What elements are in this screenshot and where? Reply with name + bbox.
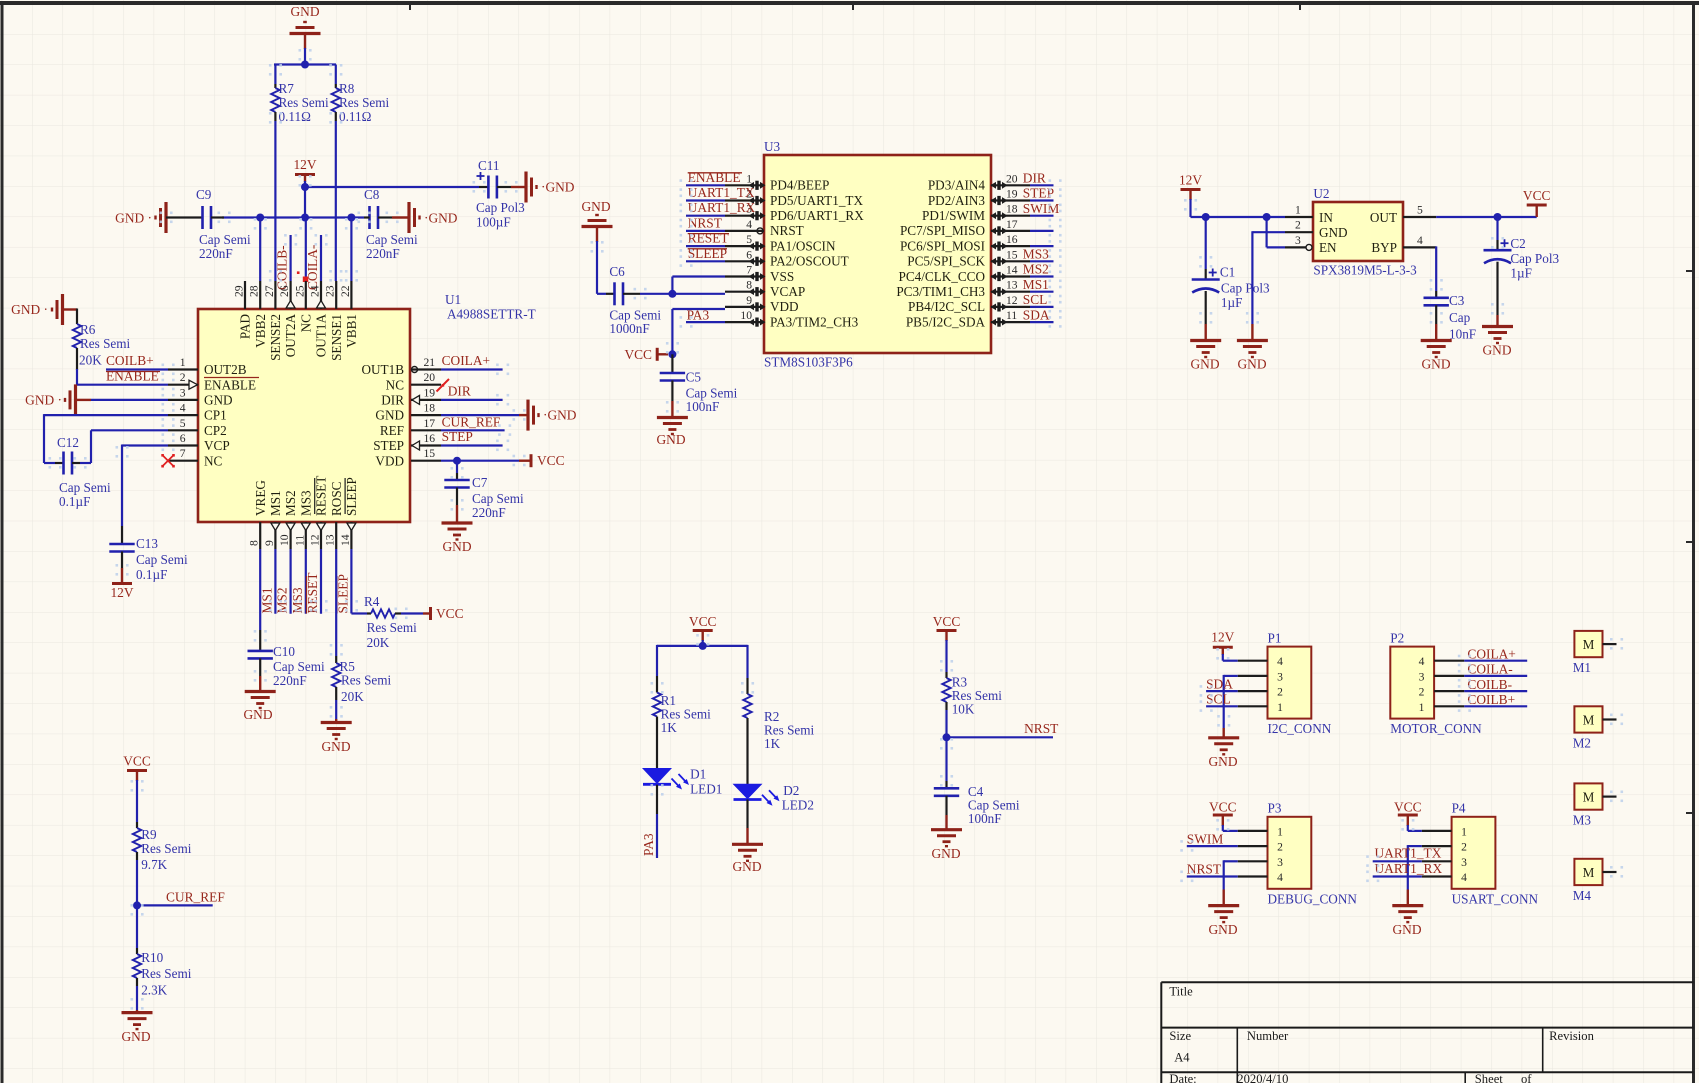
- svg-text:220nF: 220nF: [199, 246, 233, 261]
- svg-text:GND: GND: [1482, 343, 1511, 358]
- node 12V junction: [301, 183, 309, 191]
- svg-text:C12: C12: [57, 435, 79, 450]
- svg-text:1µF: 1µF: [1510, 266, 1532, 281]
- node LED rail junction: [699, 642, 707, 650]
- svg-text:M2: M2: [1573, 735, 1591, 750]
- op-amp U1 A4988SETTR-T body: [198, 309, 410, 522]
- svg-text:GND ·: GND ·: [115, 211, 152, 226]
- svg-text:2: 2: [1277, 841, 1283, 854]
- svg-text:COILB-: COILB-: [1467, 677, 1512, 692]
- net MS1: [274, 549, 276, 614]
- svg-text:Res Semi: Res Semi: [141, 966, 192, 981]
- ground GND at C1: [1190, 339, 1221, 342]
- svg-text:BYP: BYP: [1371, 240, 1397, 255]
- svg-text:18: 18: [1006, 203, 1018, 216]
- svg-text:17: 17: [1006, 218, 1018, 231]
- node C2 junction: [1494, 213, 1502, 221]
- ground GND at C5: [657, 416, 688, 419]
- wire: [1030, 245, 1054, 247]
- U1 bottom pin stubs: [259, 522, 261, 549]
- svg-text:1: 1: [1277, 825, 1283, 838]
- resistor R10 2.3K: [136, 905, 138, 948]
- svg-text:COILA-: COILA-: [305, 245, 320, 290]
- svg-text:NRST: NRST: [1187, 862, 1221, 877]
- ground GND at D2: [732, 843, 763, 846]
- svg-text:M1: M1: [1573, 660, 1591, 675]
- svg-text:Cap Semi: Cap Semi: [136, 552, 188, 567]
- svg-text:VCC: VCC: [1209, 800, 1237, 815]
- wire / net PA3: [656, 785, 658, 814]
- svg-text:4: 4: [1277, 655, 1283, 668]
- svg-text:2: 2: [1419, 686, 1425, 699]
- ground GND at C10: [245, 690, 276, 693]
- wire VSS: [672, 275, 725, 277]
- svg-text:COILB-: COILB-: [275, 245, 290, 290]
- title block: [1161, 981, 1693, 983]
- ground GND at P3: [1208, 904, 1239, 907]
- wire: [76, 369, 78, 385]
- svg-text:STM8S103F3P6: STM8S103F3P6: [764, 355, 853, 370]
- connector P1 I2C_CONN body: [1268, 647, 1312, 719]
- no-connect X pin 7: [163, 456, 173, 466]
- svg-text:MS1: MS1: [268, 490, 283, 516]
- svg-text:9: 9: [746, 294, 752, 307]
- P4 pin 1: [1422, 830, 1452, 832]
- svg-text:D2: D2: [783, 783, 799, 798]
- svg-text:SENSE2: SENSE2: [268, 314, 283, 361]
- wire: [274, 63, 336, 65]
- svg-text:100µF: 100µF: [476, 215, 511, 230]
- P2 pin 4 / net COILA+: [1434, 660, 1464, 662]
- svg-text:Cap Semi: Cap Semi: [59, 480, 111, 495]
- svg-text:C1: C1: [1220, 265, 1235, 280]
- svg-text:NC: NC: [204, 453, 223, 468]
- U3 left pin stubs 1-10: [725, 184, 764, 186]
- node VBB rail junctions: [301, 214, 309, 222]
- U2 pin 5 OUT: [1403, 216, 1436, 218]
- svg-text:Res Semi: Res Semi: [341, 673, 392, 688]
- wire 12V rail: [1191, 216, 1286, 218]
- capacitor C11 100uF: [479, 186, 488, 188]
- connector M3 mounting hole: [1574, 783, 1602, 809]
- svg-text:NRST: NRST: [1024, 721, 1058, 736]
- svg-text:12V: 12V: [293, 157, 316, 172]
- no-connect X pin 20: [437, 379, 450, 392]
- svg-text:MS2: MS2: [283, 490, 298, 516]
- svg-text:Res Semi: Res Semi: [279, 95, 330, 110]
- capacitor C10 220nF: [248, 650, 273, 653]
- svg-text:COILA+: COILA+: [442, 353, 490, 368]
- svg-text:MS1: MS1: [259, 587, 274, 613]
- svg-text:1000nF: 1000nF: [609, 321, 649, 336]
- svg-text:6: 6: [180, 432, 186, 445]
- svg-text:Res Semi: Res Semi: [80, 336, 131, 351]
- svg-text:PC5/SPI_SCK: PC5/SPI_SCK: [907, 254, 985, 269]
- svg-text:RESET: RESET: [688, 231, 729, 246]
- svg-text:3: 3: [1295, 234, 1301, 247]
- svg-text:3: 3: [1277, 670, 1283, 683]
- no-ERC marker: [303, 277, 309, 283]
- svg-text:MS2: MS2: [1023, 262, 1049, 277]
- svg-text:Size: Size: [1169, 1029, 1191, 1043]
- svg-text:NRST: NRST: [770, 223, 804, 238]
- ground GND right of C11: [524, 172, 527, 203]
- svg-text:PD1/SWIM: PD1/SWIM: [922, 208, 985, 223]
- svg-text:PC6/SPI_MOSI: PC6/SPI_MOSI: [900, 238, 985, 253]
- svg-text:NC: NC: [386, 377, 405, 392]
- wire VREG to C10: [259, 549, 261, 630]
- capacitor C5 100nF: [671, 354, 673, 373]
- svg-text:OUT2A: OUT2A: [283, 314, 298, 358]
- U2 pin 3 EN: [1285, 246, 1306, 248]
- P1 pin 3: [1238, 675, 1268, 677]
- wire: [1030, 275, 1054, 277]
- svg-text:Revision: Revision: [1549, 1029, 1594, 1043]
- svg-text:Cap Pol3: Cap Pol3: [476, 200, 525, 215]
- svg-text:SCL: SCL: [1023, 292, 1048, 307]
- svg-text:VCC: VCC: [123, 754, 151, 769]
- svg-text:2.3K: 2.3K: [141, 983, 167, 998]
- svg-text:Number: Number: [1247, 1029, 1289, 1043]
- svg-text:VCAP: VCAP: [770, 284, 805, 299]
- svg-text:MS1: MS1: [1023, 277, 1049, 292]
- svg-text:C3: C3: [1449, 293, 1465, 308]
- wire VDD to VCC: [441, 460, 519, 462]
- wire: [304, 48, 306, 66]
- svg-text:M: M: [1583, 637, 1595, 652]
- svg-text:10K: 10K: [952, 702, 975, 717]
- resistor R2 1K: [746, 645, 748, 678]
- svg-text:0.11Ω: 0.11Ω: [279, 109, 312, 124]
- svg-text:7: 7: [746, 264, 752, 277]
- resistor R6 20K: [76, 309, 78, 325]
- svg-text:·GND: ·GND: [541, 180, 575, 195]
- wire: [1030, 260, 1054, 262]
- node EN junction: [1263, 213, 1271, 221]
- svg-text:19: 19: [1006, 188, 1018, 201]
- resistor R9 9.7K: [136, 780, 138, 822]
- svg-text:8: 8: [248, 540, 261, 546]
- svg-text:R6: R6: [80, 322, 96, 337]
- svg-text:0.1µF: 0.1µF: [136, 567, 167, 582]
- svg-text:5: 5: [180, 417, 186, 430]
- wire: [350, 218, 352, 282]
- svg-text:C2: C2: [1510, 236, 1525, 251]
- svg-text:26: 26: [278, 285, 291, 297]
- svg-text:COILA-: COILA-: [1467, 662, 1512, 677]
- svg-text:1: 1: [1295, 204, 1301, 217]
- net SLEEP + resistor R4 20K to VCC: [350, 549, 352, 614]
- svg-text:18: 18: [424, 402, 436, 415]
- svg-text:PB4/I2C_SCL: PB4/I2C_SCL: [908, 299, 985, 314]
- svg-text:CP2: CP2: [204, 423, 227, 438]
- node CUR_REF junction: [133, 901, 141, 909]
- svg-text:20K: 20K: [367, 635, 390, 650]
- pin 19 triangle: [412, 395, 420, 404]
- P4 pin 3: [1422, 860, 1452, 862]
- svg-text:12: 12: [309, 534, 322, 546]
- net MS3: [305, 549, 307, 614]
- svg-text:VDD: VDD: [375, 453, 404, 468]
- U1 top pin stubs: [244, 281, 246, 309]
- svg-text:GND: GND: [581, 199, 610, 214]
- svg-text:PA3: PA3: [687, 307, 710, 322]
- svg-text:P1: P1: [1268, 631, 1282, 646]
- capacitor C9 220nF: [166, 216, 203, 218]
- wire pin3 to GND: [1224, 675, 1238, 677]
- svg-text:M: M: [1583, 865, 1595, 880]
- svg-text:24: 24: [309, 285, 322, 297]
- P4 pin 2: [1422, 845, 1452, 847]
- svg-text:100nF: 100nF: [686, 399, 720, 414]
- svg-text:Sheet: Sheet: [1475, 1072, 1503, 1083]
- svg-text:14: 14: [339, 534, 352, 546]
- U2 pin 2 GND: [1285, 231, 1313, 233]
- svg-text:6: 6: [746, 248, 752, 261]
- node R7/R8 top junction: [301, 61, 309, 69]
- capacitor C13 0.1uF on VCP: [122, 444, 168, 446]
- wire pin3 to GND: [1224, 860, 1238, 862]
- svg-text:I2C_CONN: I2C_CONN: [1268, 721, 1332, 736]
- P3 pin 4: [1238, 875, 1268, 877]
- svg-text:4: 4: [180, 402, 186, 415]
- svg-text:PD3/AIN4: PD3/AIN4: [928, 178, 986, 193]
- net COILB-: [290, 235, 292, 281]
- svg-text:RESET: RESET: [314, 476, 329, 516]
- svg-text:STEP: STEP: [442, 429, 473, 444]
- svg-text:2: 2: [180, 371, 186, 384]
- svg-text:GND: GND: [1319, 225, 1348, 240]
- connector P3 DEBUG_CONN body: [1268, 817, 1312, 889]
- P1 pin 1: [1238, 705, 1268, 707]
- wire: [1030, 215, 1054, 217]
- ground GND at C2: [1482, 325, 1513, 328]
- resistor R5 20K on ROSC: [335, 549, 337, 656]
- diode D2 LED2: [733, 784, 763, 800]
- svg-text:VBB2: VBB2: [253, 314, 268, 348]
- svg-text:D1: D1: [690, 767, 706, 782]
- svg-text:PA3/TIM2_CH3: PA3/TIM2_CH3: [770, 314, 859, 329]
- connector P4 USART_CONN body: [1452, 817, 1496, 889]
- svg-text:10: 10: [278, 534, 291, 546]
- svg-text:2: 2: [1277, 686, 1283, 699]
- svg-text:of: of: [1521, 1072, 1532, 1083]
- svg-text:MS3: MS3: [1023, 247, 1049, 262]
- ground GND at C4: [931, 828, 962, 831]
- svg-text:11: 11: [1006, 309, 1017, 322]
- svg-text:P2: P2: [1390, 631, 1404, 646]
- wire 12V rail to C11: [305, 186, 479, 188]
- node NRST junction: [943, 733, 951, 741]
- svg-text:U3: U3: [764, 139, 781, 154]
- capacitor C2 1uF: [1496, 217, 1498, 240]
- svg-text:14: 14: [1006, 264, 1018, 277]
- svg-text:VSS: VSS: [770, 269, 794, 284]
- svg-text:0.1µF: 0.1µF: [59, 494, 90, 509]
- svg-text:10nF: 10nF: [1449, 327, 1476, 342]
- svg-text:1: 1: [1419, 701, 1425, 714]
- svg-text:3: 3: [1419, 670, 1425, 683]
- svg-text:C9: C9: [196, 187, 212, 202]
- svg-text:RESET: RESET: [305, 573, 320, 614]
- svg-text:COILB+: COILB+: [1467, 692, 1515, 707]
- svg-text:1µF: 1µF: [1221, 295, 1243, 310]
- U1 left pin stubs 1-7: [168, 368, 198, 370]
- svg-text:PA3: PA3: [641, 833, 656, 856]
- net RESET: [320, 549, 322, 614]
- svg-text:UART1_TX: UART1_TX: [688, 185, 755, 200]
- svg-text:2: 2: [1295, 219, 1301, 232]
- svg-text:GND: GND: [321, 739, 350, 754]
- wire ENABLE: [77, 384, 168, 386]
- svg-text:C13: C13: [136, 536, 158, 551]
- wire VDD: [672, 308, 725, 310]
- svg-text:1: 1: [746, 172, 752, 185]
- svg-text:17: 17: [424, 417, 436, 430]
- svg-text:OUT1B: OUT1B: [362, 362, 405, 377]
- connector M4 mounting hole: [1574, 859, 1602, 885]
- U2 pin 1: [1285, 216, 1313, 218]
- svg-text:USART_CONN: USART_CONN: [1452, 892, 1539, 907]
- svg-text:GND: GND: [121, 1029, 150, 1044]
- svg-text:27: 27: [263, 285, 276, 297]
- connector P2 MOTOR_CONN body: [1390, 647, 1434, 719]
- svg-text:21: 21: [424, 356, 436, 369]
- svg-text:M: M: [1583, 712, 1595, 727]
- ground GND at pin18: [526, 400, 529, 431]
- svg-text:R4: R4: [364, 594, 380, 609]
- svg-text:PC4/CLK_CCO: PC4/CLK_CCO: [899, 269, 985, 284]
- svg-text:A4988SETTR-T: A4988SETTR-T: [447, 307, 536, 322]
- svg-text:1K: 1K: [661, 720, 678, 735]
- svg-text:Date:: Date:: [1169, 1072, 1196, 1083]
- svg-text:GND: GND: [1421, 357, 1450, 372]
- svg-text:DIR: DIR: [1023, 171, 1046, 186]
- svg-text:12V: 12V: [110, 585, 133, 600]
- capacitor C12 0.1uF loop: [44, 414, 168, 416]
- svg-text:8: 8: [746, 279, 752, 292]
- P3 pin 3: [1238, 860, 1268, 862]
- svg-text:1: 1: [180, 356, 186, 369]
- svg-text:SENSE1: SENSE1: [329, 314, 344, 361]
- wire: [945, 710, 947, 738]
- svg-text:10: 10: [740, 309, 752, 322]
- wire pin2 to GND: [1408, 845, 1422, 847]
- svg-text:R8: R8: [339, 81, 355, 96]
- wire pin18 to GND: [441, 414, 519, 416]
- svg-text:MS3: MS3: [298, 490, 313, 516]
- svg-text:PB5/I2C_SDA: PB5/I2C_SDA: [906, 314, 986, 329]
- svg-text:GND: GND: [1237, 357, 1266, 372]
- svg-text:EN: EN: [1319, 240, 1337, 255]
- svg-text:M3: M3: [1573, 812, 1592, 827]
- svg-text:1: 1: [1277, 701, 1283, 714]
- ground GND at C7: [442, 521, 473, 524]
- svg-text:5: 5: [746, 233, 752, 246]
- ground GND at P1: [1208, 736, 1239, 739]
- wire: [335, 121, 337, 281]
- svg-text:UART1_RX: UART1_RX: [688, 200, 756, 215]
- ground GND right of C8: [407, 202, 410, 233]
- svg-text:UART1_RX: UART1_RX: [1375, 861, 1443, 876]
- svg-text:UART1_TX: UART1_TX: [1375, 846, 1442, 861]
- svg-text:IN: IN: [1319, 210, 1333, 225]
- svg-text:SWIM: SWIM: [1187, 831, 1224, 846]
- svg-text:C10: C10: [273, 644, 295, 659]
- svg-text:VCC: VCC: [436, 606, 464, 621]
- node VDD junction: [453, 457, 461, 465]
- svg-text:C6: C6: [609, 264, 625, 279]
- ground GND at R5: [321, 721, 352, 724]
- svg-text:NC: NC: [298, 314, 313, 333]
- svg-text:OUT2B: OUT2B: [204, 362, 247, 377]
- P3 pin 1: [1238, 830, 1268, 832]
- wire: [1030, 199, 1054, 201]
- svg-text:13: 13: [324, 534, 337, 546]
- pin 24 triangle: [317, 301, 326, 309]
- svg-text:12V: 12V: [1179, 173, 1202, 188]
- svg-text:GND: GND: [732, 859, 761, 874]
- svg-text:VCP: VCP: [204, 438, 230, 453]
- svg-text:GND: GND: [204, 393, 233, 408]
- svg-text:SPX3819M5-L-3-3: SPX3819M5-L-3-3: [1313, 263, 1417, 278]
- svg-text:VCC: VCC: [537, 453, 565, 468]
- wire: [1030, 291, 1054, 293]
- svg-text:SCL: SCL: [1206, 692, 1231, 707]
- svg-text:PD6/UART1_RX: PD6/UART1_RX: [770, 208, 864, 223]
- svg-text:ENABLE: ENABLE: [688, 170, 741, 185]
- wire: [305, 218, 307, 282]
- svg-text:GND: GND: [1392, 922, 1421, 937]
- svg-text:M: M: [1583, 789, 1595, 804]
- P1 pin 4: [1238, 660, 1268, 662]
- svg-text:NRST: NRST: [688, 215, 722, 230]
- svg-text:28: 28: [248, 285, 261, 297]
- svg-text:LED2: LED2: [782, 798, 814, 813]
- svg-text:PC3/TIM1_CH3: PC3/TIM1_CH3: [896, 284, 985, 299]
- svg-text:GND ·: GND ·: [25, 393, 62, 408]
- svg-text:GND: GND: [243, 707, 272, 722]
- svg-text:C11: C11: [478, 158, 500, 173]
- svg-text:REF: REF: [380, 423, 404, 438]
- svg-text:VBB1: VBB1: [344, 314, 359, 348]
- svg-text:220nF: 220nF: [366, 246, 400, 261]
- wire: [746, 722, 748, 785]
- svg-text:PA1/OSCIN: PA1/OSCIN: [770, 238, 836, 253]
- wire: [1030, 306, 1054, 308]
- grid artifacts: [269, 64, 282, 76]
- ground GND at C3: [1421, 339, 1452, 342]
- pin 26 triangle: [286, 301, 295, 309]
- svg-text:MS2: MS2: [275, 587, 290, 613]
- transistor U3 STM8S103F3P6 body: [764, 155, 991, 353]
- svg-text:23: 23: [324, 285, 337, 297]
- svg-text:0.11Ω: 0.11Ω: [339, 109, 372, 124]
- svg-text:4: 4: [1461, 871, 1467, 884]
- wire: [274, 121, 276, 281]
- svg-text:SDA: SDA: [1206, 676, 1233, 691]
- diode U2 SPX3819M5-L-3-3 body: [1313, 202, 1403, 261]
- svg-text:4: 4: [1419, 655, 1425, 668]
- svg-text:ENABLE: ENABLE: [106, 369, 159, 384]
- svg-text:220nF: 220nF: [273, 673, 307, 688]
- svg-text:P4: P4: [1452, 801, 1466, 816]
- svg-text:CUR_REF: CUR_REF: [166, 890, 225, 905]
- wire: [91, 399, 168, 401]
- U3 right pin stubs 20-11: [991, 184, 1030, 186]
- svg-text:VCC: VCC: [1523, 188, 1551, 203]
- svg-text:PA2/OSCOUT: PA2/OSCOUT: [770, 254, 849, 269]
